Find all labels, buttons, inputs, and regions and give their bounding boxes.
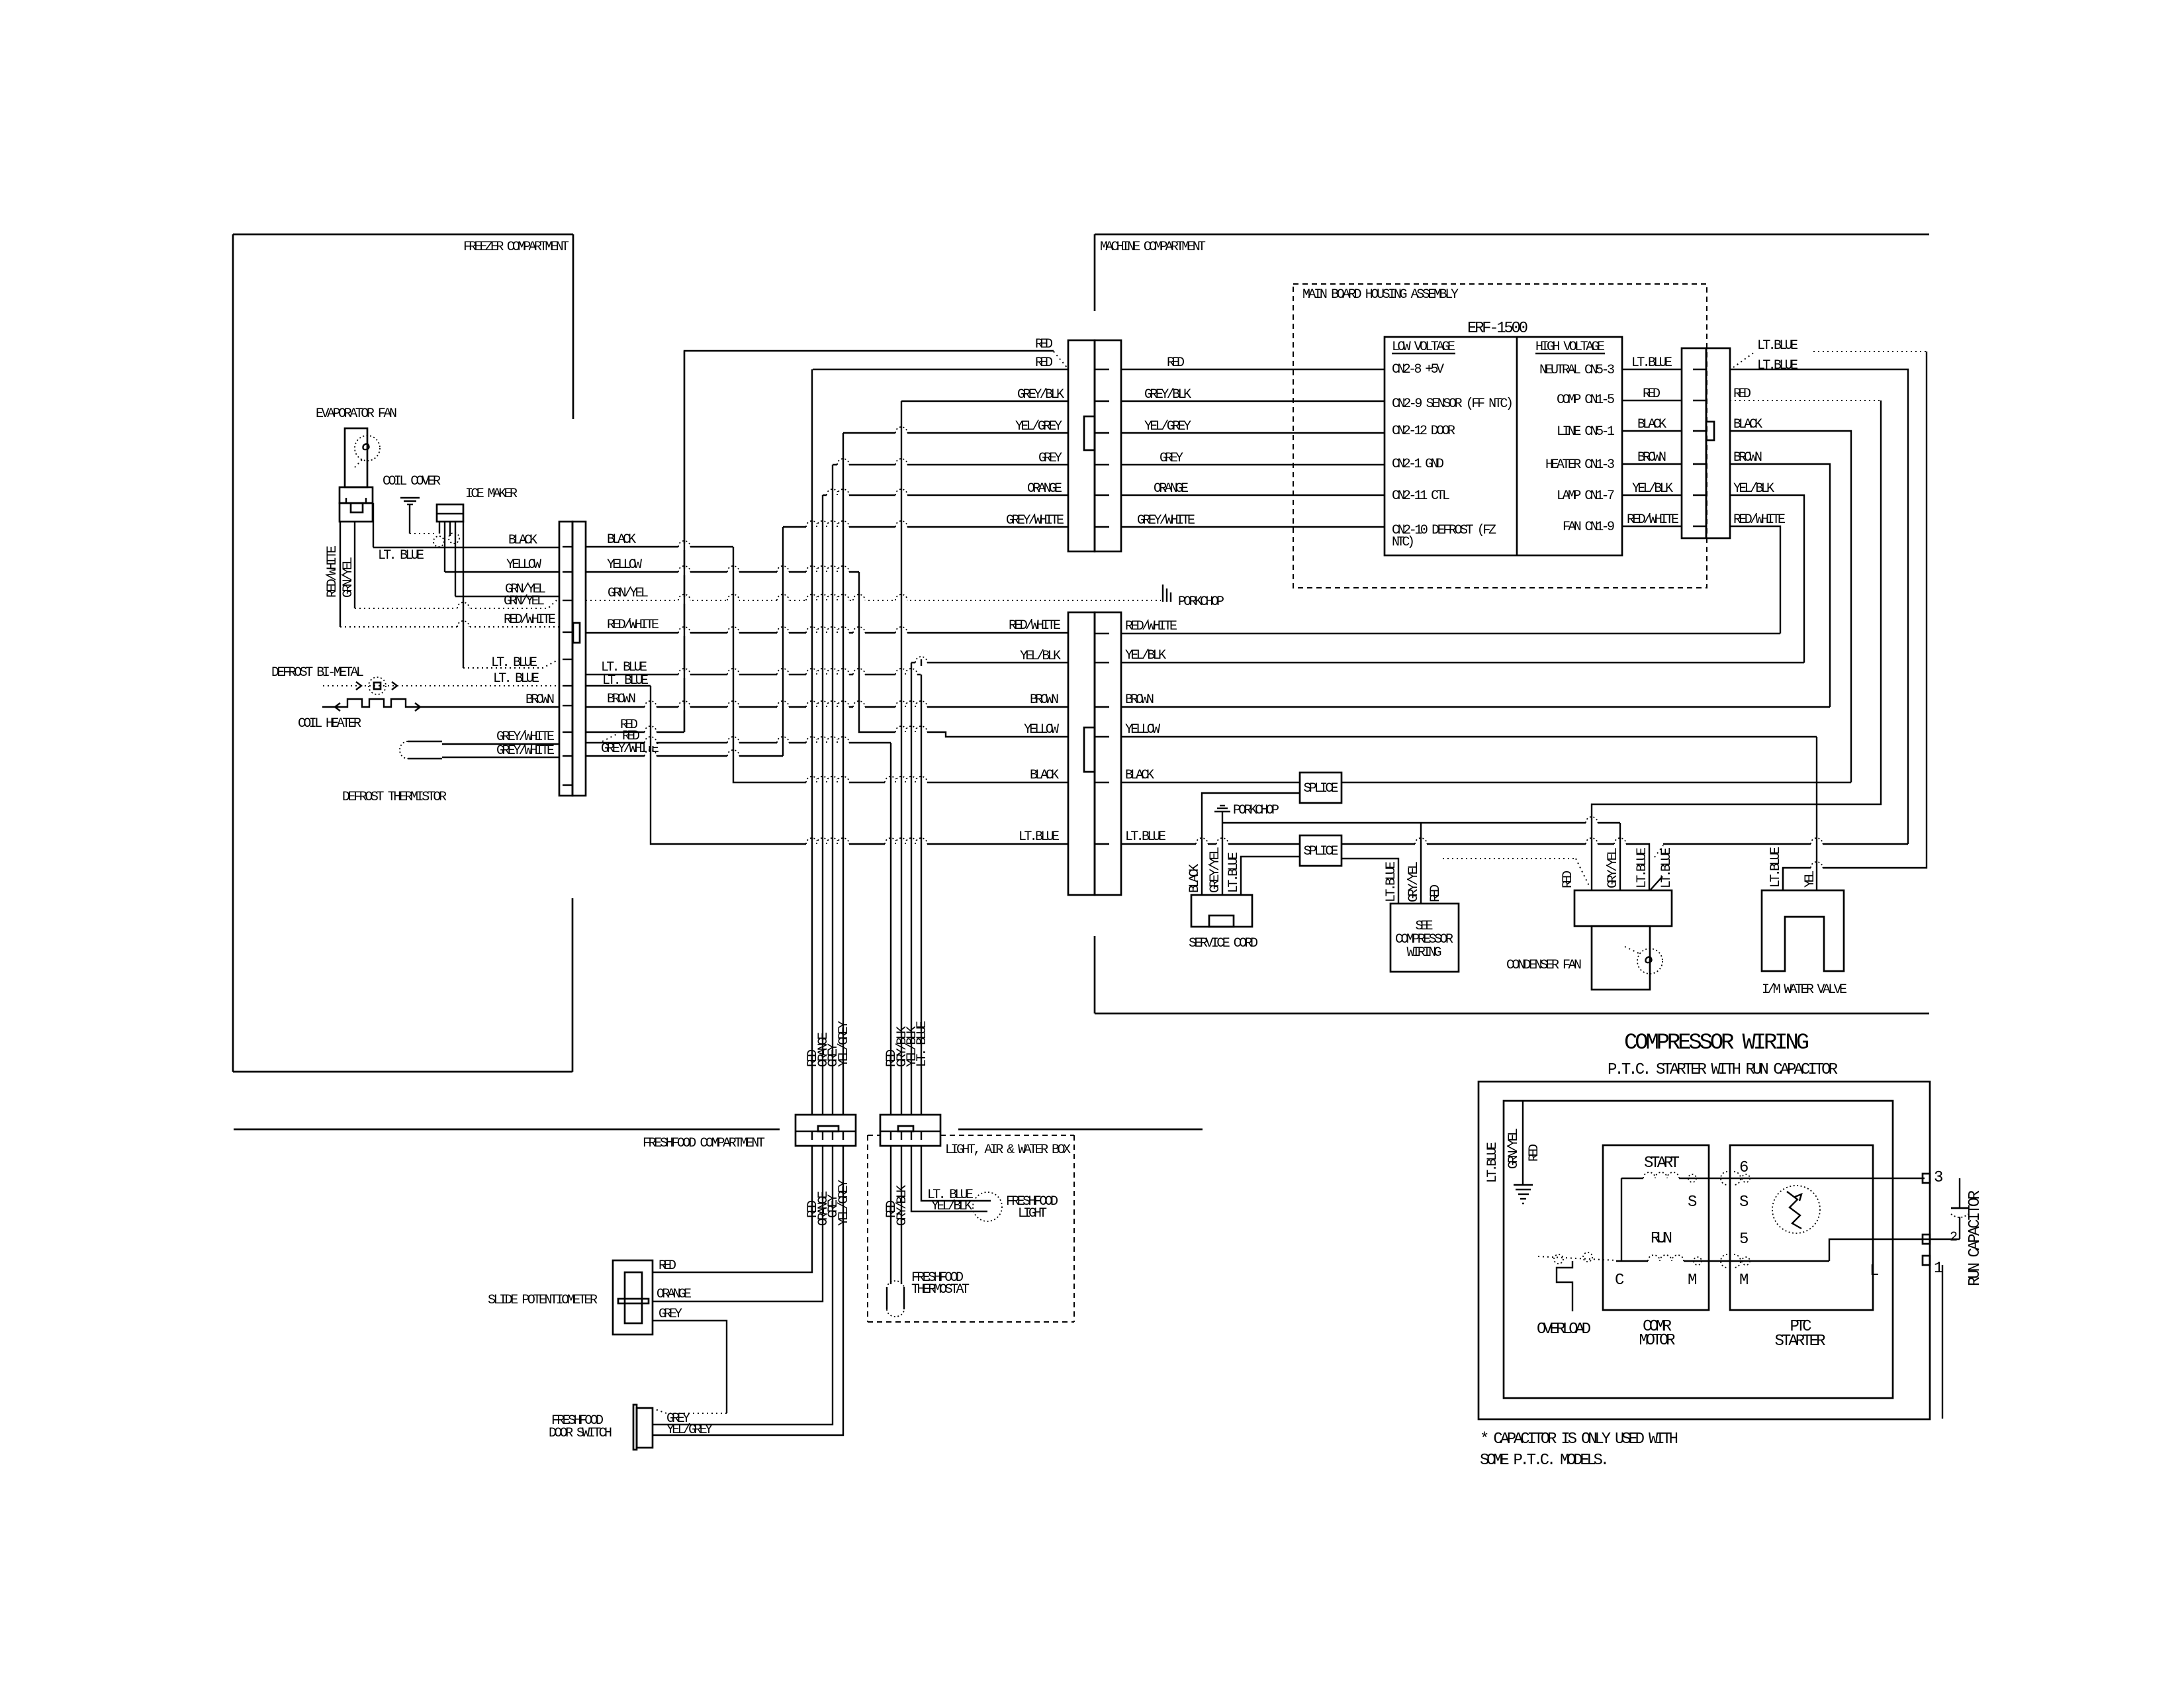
wire hop at 983,1106 — [645, 729, 657, 735]
svg-text:COMP CN1-5: COMP CN1-5 — [1557, 393, 1615, 408]
wire hop at 1816,1275 — [1196, 841, 1208, 847]
svg-text:FREEZER COMPARTMENT: FREEZER COMPARTMENT — [463, 240, 569, 255]
svg-text:CN2-12 DOOR: CN2-12 DOOR — [1392, 424, 1455, 439]
evaporator fan motor lower — [340, 503, 373, 522]
connector J2 pin stubs — [1095, 369, 1109, 370]
wire coil cover dotted — [410, 533, 435, 534]
svg-text:GREY: GREY — [1160, 451, 1183, 466]
svg-text:LOW VOLTAGE: LOW VOLTAGE — [1392, 340, 1455, 355]
wire BROWN — [1622, 463, 1682, 465]
wire hop at 2405,1275 — [1586, 841, 1598, 847]
wire ORANGE group1 vertical — [822, 495, 823, 1115]
splice SP2 box — [1300, 835, 1342, 866]
leader dotted LT.BLUE 2 — [1655, 845, 1663, 857]
wire LT.BLUE second segment — [1663, 843, 1908, 845]
ice maker pin curls — [433, 536, 444, 547]
potentiometer body — [613, 1260, 653, 1335]
svg-text:THERMOSTAT: THERMOSTAT — [911, 1282, 970, 1297]
svg-text:GREY: GREY — [1038, 451, 1062, 466]
svg-text:WIRING: WIRING — [1407, 945, 1442, 961]
wire hop at 1108,907 — [727, 597, 739, 604]
wire hop at 2745,1275 — [1811, 841, 1823, 847]
svg-text:* CAPACITOR IS ONLY USED WITH: * CAPACITOR IS ONLY USED WITH — [1480, 1430, 1678, 1448]
svg-text:LT. BLUE: LT. BLUE — [378, 548, 424, 563]
wire GRN/YEL dotted row — [355, 598, 559, 608]
wire hop at 1377,1019 — [905, 671, 917, 678]
wire YELLOW jog — [859, 572, 1068, 737]
wire BLACK service — [1202, 793, 1300, 895]
wire GREY/WHITE row — [586, 755, 783, 757]
dashed box top segs — [868, 1135, 880, 1136]
svg-text:DOOR SWITCH: DOOR SWITCH — [549, 1426, 612, 1441]
svg-text:LT.BLUE: LT.BLUE — [1019, 829, 1060, 845]
wire GREY/BLK row — [901, 400, 1068, 402]
wire YEL/BLK below B2 — [911, 1146, 987, 1211]
svg-text:YEL/GREY: YEL/GREY — [1015, 419, 1062, 434]
connector J3 left bar — [1068, 612, 1095, 895]
main board divider — [1516, 337, 1518, 555]
wire hop at 1392,1106 — [915, 729, 927, 735]
evaporator fan motor ticks — [345, 498, 347, 503]
wire hop at 1227,1068 — [806, 704, 818, 710]
defrost thermistor tube top — [408, 741, 442, 742]
wire GREY group1 vertical — [832, 465, 833, 1115]
svg-text:LT.BLUE: LT.BLUE — [1125, 829, 1166, 845]
connector J3 right bar — [1095, 612, 1121, 895]
machine compartment top wall — [1095, 234, 1929, 236]
wire fan to black row — [373, 503, 374, 547]
wire GREY below B1 — [653, 1146, 833, 1425]
svg-text:CN2-9 SENSOR (FF NTC): CN2-9 SENSOR (FF NTC) — [1392, 397, 1514, 412]
ptc zigzag arrow — [1795, 1194, 1801, 1201]
svg-text:L: L — [1870, 1262, 1879, 1280]
wire hop at 1298,1019 — [853, 671, 865, 678]
svg-text:RED/WHITE: RED/WHITE — [1009, 618, 1061, 633]
wire YEL/BLK row — [911, 662, 1068, 663]
wire hop at 1258,907 — [827, 597, 839, 604]
splice SP1 box — [1300, 773, 1342, 803]
wire M row — [1616, 1260, 1648, 1262]
svg-text:NTC): NTC) — [1392, 535, 1415, 550]
svg-text:SPLICE: SPLICE — [1304, 781, 1339, 796]
wire S-M link vertical — [1621, 1178, 1622, 1261]
svg-text:LT.BLUE: LT.BLUE — [1757, 358, 1798, 373]
wire LT.BLUE dotted upper — [1733, 352, 1754, 367]
svg-text:RED/WHITE: RED/WHITE — [607, 618, 659, 633]
main board U1 box — [1385, 337, 1622, 555]
thermostat bottom arc dotted — [887, 1309, 904, 1317]
svg-text:LT.BLUE: LT.BLUE — [1635, 847, 1650, 888]
svg-text:STARTER: STARTER — [1775, 1333, 1826, 1350]
wire RED/WHITE fan vertical — [340, 522, 341, 627]
svg-text:LT. BLUE: LT. BLUE — [493, 671, 539, 686]
wire RED group1 vertical — [811, 369, 813, 1115]
wire YEL/BLK right row — [1121, 662, 1804, 663]
wire hop at 1227,1275 — [806, 841, 818, 847]
connector J3 pin stubs — [1095, 633, 1109, 634]
ice maker pins — [439, 522, 440, 534]
leader LT.BLUE 2 — [1651, 876, 1662, 890]
svg-text:LINE CN5-1: LINE CN5-1 — [1557, 424, 1615, 440]
ice maker body — [437, 504, 463, 522]
feedthrough block B1 — [796, 1115, 856, 1146]
svg-text:FAN CN1-9: FAN CN1-9 — [1563, 520, 1615, 535]
wire BLACK — [1622, 430, 1682, 432]
wire ORANGE — [1121, 494, 1385, 496]
wire hop at 2448,1275 — [1614, 841, 1626, 847]
svg-text:NEUTRAL CN5-3: NEUTRAL CN5-3 — [1539, 363, 1615, 378]
wire hop at 1034,907 — [678, 597, 690, 604]
wire GRY/BLK below B2 — [901, 1146, 902, 1284]
wire GREY/WHITE row — [783, 526, 1068, 528]
svg-text:GRN/YEL: GRN/YEL — [1506, 1128, 1522, 1169]
freezer compartment top wall — [233, 234, 573, 236]
wire hop at 1847,1275 — [1216, 841, 1228, 847]
condenser fan motor — [1592, 926, 1650, 990]
terminal 5 ptc — [1742, 1257, 1750, 1265]
wire RED/WHITE right row — [1121, 633, 1780, 634]
wire hop at 1274,796 — [837, 524, 849, 530]
wire BLACK right row — [1121, 782, 1300, 783]
svg-text:GREY: GREY — [659, 1307, 682, 1322]
wire RED below B1 — [653, 1146, 812, 1272]
svg-text:YELLOW: YELLOW — [1024, 722, 1059, 737]
condenser fan connector box — [1574, 890, 1672, 926]
wire S row — [1621, 1178, 1643, 1179]
svg-text:CN2-1 GND: CN2-1 GND — [1392, 457, 1444, 472]
run capacitor plate — [1951, 1207, 1968, 1209]
wire BLACK / LT. BLUE row — [373, 547, 559, 548]
wire hop at 1362,654 — [895, 430, 907, 436]
wire RED A row — [586, 731, 684, 733]
svg-text:GRN/YEL: GRN/YEL — [341, 557, 356, 598]
wire hop at 1258,1275 — [827, 841, 839, 847]
wire cap top — [1959, 1178, 1960, 1208]
leader dotted RED B — [602, 733, 618, 741]
wire hop at 1183,864 — [777, 569, 789, 575]
connector J1 key rect — [573, 623, 580, 643]
svg-text:GRY/YEL: GRY/YEL — [1406, 861, 1422, 902]
wire hop at 1392,1182 — [915, 779, 927, 786]
svg-text:RED: RED — [1035, 355, 1053, 371]
svg-text:BROWN: BROWN — [607, 692, 636, 707]
wire YEL/GREY — [1121, 432, 1385, 434]
wire hop at 1243,1182 — [817, 779, 829, 786]
svg-text:M: M — [1688, 1272, 1697, 1289]
wire hop at 1227,796 — [806, 524, 818, 530]
svg-text:MOTOR: MOTOR — [1639, 1332, 1676, 1350]
freshfood compartment wall left segment — [234, 1129, 780, 1131]
wire hop at 1227,907 — [806, 597, 818, 604]
machine compartment left wall lower — [1094, 936, 1096, 1013]
wire GRN/YEL porkchop dotted — [586, 600, 1161, 601]
wire YEL/GREY group1 vertical — [842, 433, 844, 1115]
wire hop at 1108,956 — [727, 630, 739, 636]
see compressor wiring box — [1390, 904, 1459, 972]
condenser fan rotor mark — [1646, 957, 1652, 963]
svg-text:ORANGE: ORANGE — [657, 1287, 692, 1302]
block B2 divider — [880, 1131, 940, 1132]
svg-text:YEL/GREY: YEL/GREY — [666, 1423, 713, 1438]
svg-text:EVAPORATOR FAN: EVAPORATOR FAN — [316, 406, 397, 422]
svg-text:GREY/WHITE: GREY/WHITE — [1006, 513, 1064, 528]
wire RED row2 — [813, 369, 1068, 370]
wire RED below B2 — [890, 1146, 891, 1284]
wire hop at 1274,1182 — [837, 779, 849, 786]
svg-text:YEL/GREY: YEL/GREY — [837, 1180, 852, 1226]
svg-text:YEL/GREY: YEL/GREY — [837, 1021, 852, 1067]
door switch plate — [633, 1405, 637, 1450]
porkchop ground 1 — [1162, 585, 1163, 602]
svg-text:C: C — [1615, 1272, 1624, 1289]
svg-text:3: 3 — [1934, 1169, 1943, 1187]
feedthrough block B2 — [880, 1115, 940, 1146]
wire hop at 1377,1106 — [905, 729, 917, 735]
wire hop at 1362,796 — [895, 524, 907, 530]
door switch body — [637, 1408, 653, 1448]
wire hop at 1274,1019 — [837, 671, 849, 678]
connector J4 left bar — [1682, 348, 1706, 538]
wire hop at 1183,956 — [777, 630, 789, 636]
wire hop at 1377,1068 — [905, 704, 917, 710]
terminal M motor — [1694, 1257, 1702, 1265]
wire hop at 1258,748 — [827, 492, 839, 498]
svg-text:RED/WHITE: RED/WHITE — [1627, 512, 1679, 528]
wire LT.BLUE to water valve — [1783, 352, 1927, 890]
svg-text:HIGH VOLTAGE: HIGH VOLTAGE — [1535, 340, 1605, 355]
wire GRN/YEL row — [455, 596, 559, 597]
svg-text:LT. BLUE: LT. BLUE — [915, 1021, 930, 1067]
wire hop at 1258,1122 — [827, 739, 839, 746]
svg-text:RED/WHITE: RED/WHITE — [1733, 512, 1786, 528]
wire LT. BLUE dotted row — [463, 659, 559, 668]
coil cover ground — [400, 497, 420, 498]
svg-text:PORKCHOP: PORKCHOP — [1233, 803, 1279, 818]
dashed box left — [867, 1135, 868, 1322]
run capacitor curved plate — [1951, 1214, 1968, 1217]
wire LT.BLUE2 row — [586, 685, 651, 686]
wire YEL/BLK — [1730, 495, 1804, 663]
svg-text:YEL/BLK: YEL/BLK — [1125, 648, 1166, 663]
wire hop at 1298,907 — [853, 597, 865, 604]
wire hop at 1243,1275 — [817, 841, 829, 847]
wire GRY/BLK group2 vertical — [901, 401, 902, 1115]
wire RED/WHITE long row — [586, 632, 1068, 633]
wire YELLOW right row — [1121, 736, 1817, 737]
svg-text:COIL HEATER: COIL HEATER — [298, 716, 361, 731]
terminal S motor — [1688, 1174, 1696, 1182]
service cord box — [1191, 895, 1252, 927]
wire GREY/WHITE — [1121, 526, 1385, 528]
wire hop at 700,919 — [457, 605, 469, 612]
defrost thermistor tube bottom — [408, 758, 442, 759]
wire hop at 1243,956 — [817, 630, 829, 636]
wire RED/WHITE — [1730, 526, 1780, 633]
wire M to pin2 — [1829, 1239, 1960, 1261]
svg-text:BLACK: BLACK — [508, 533, 537, 548]
wire hop at 1108,864 — [727, 569, 739, 575]
wire hop at 1274,1122 — [837, 739, 849, 746]
svg-text:BROWN: BROWN — [1637, 450, 1666, 465]
svg-text:GREY/BLK: GREY/BLK — [1017, 387, 1064, 402]
wire YELLOW row — [445, 571, 559, 573]
wire hop at 1362,907 — [895, 597, 907, 604]
svg-text:GREY/YEL: GREY/YEL — [1208, 847, 1223, 893]
block B2 key — [898, 1126, 913, 1131]
svg-text:BLACK: BLACK — [1187, 864, 1203, 893]
wire LT.BLUE group2 vertical — [921, 675, 922, 1115]
svg-text:START: START — [1644, 1154, 1680, 1172]
evaporator fan motor notch — [351, 503, 363, 512]
wire hop at 1227,1019 — [806, 671, 818, 678]
compressor outer box — [1479, 1082, 1930, 1419]
wire GREY/WHITE vertical — [782, 527, 784, 756]
svg-text:RED: RED — [1561, 870, 1576, 888]
svg-text:GRN/YEL: GRN/YEL — [504, 594, 545, 609]
terminal dotted left — [1554, 1254, 1563, 1264]
block B1 pin ticks — [811, 1131, 813, 1140]
svg-text:RED: RED — [1733, 387, 1751, 402]
svg-text:HEATER CN1-3: HEATER CN1-3 — [1545, 457, 1615, 473]
wire LT.BLUE solid — [1730, 369, 1908, 844]
wire hop at 1034,864 — [678, 569, 690, 575]
wire hop at 1346,1275 — [885, 841, 897, 847]
svg-text:I/M WATER VALVE: I/M WATER VALVE — [1762, 982, 1847, 998]
wire LT.BLUE pin down — [463, 522, 464, 668]
evaporator fan motor upper — [340, 487, 373, 503]
defrost bimetal chevron left — [356, 682, 361, 690]
water valve body — [1762, 890, 1844, 971]
service cord notch — [1209, 915, 1234, 927]
overload element — [1557, 1261, 1572, 1311]
potentiometer slider — [618, 1299, 649, 1303]
pin3 pad — [1923, 1174, 1930, 1183]
svg-text:RED/WHITE: RED/WHITE — [1125, 619, 1177, 634]
wire ORANGE below B1 — [653, 1146, 823, 1301]
wire LT.BLUE right row — [1121, 843, 1300, 845]
ptc disc circle — [1772, 1186, 1820, 1233]
svg-text:S: S — [1739, 1194, 1749, 1211]
evaporator fan rotor mark — [363, 444, 369, 450]
wire hop at 1298,956 — [853, 630, 865, 636]
main board housing assembly dashed box — [1293, 284, 1707, 588]
wire hop at 1183,907 — [777, 597, 789, 604]
wire hop at 1243,796 — [817, 524, 829, 530]
wire hop at 1227,956 — [806, 630, 818, 636]
connector J3 key rect — [1084, 727, 1095, 772]
connector J4 key rect — [1706, 422, 1714, 440]
wire GREY dotted to switch — [655, 1409, 727, 1413]
wire LT.BLUE below B2 — [921, 1146, 991, 1201]
svg-text:RED: RED — [659, 1258, 676, 1274]
svg-text:LT.BLUE: LT.BLUE — [1757, 338, 1798, 353]
svg-text:MACHINE COMPARTMENT: MACHINE COMPARTMENT — [1100, 240, 1206, 255]
freezer compartment right wall lower — [572, 898, 574, 1072]
wire pin1 return — [1942, 1265, 1943, 1419]
wire hop at 1362,1068 — [895, 704, 907, 710]
wire GRY/YEL fan vertical — [1619, 823, 1621, 890]
wire hop at 1034,1068 — [678, 704, 690, 710]
wire RED/WHITE dotted row — [340, 626, 559, 628]
wire GRY/YEL to box — [1420, 823, 1422, 904]
wire hop at 1362,956 — [895, 630, 907, 636]
wire hop at 1258,1182 — [827, 779, 839, 786]
wire YEL/GREY below B1 — [653, 1146, 843, 1435]
svg-text:M: M — [1739, 1272, 1749, 1289]
svg-text:LT. BLUE: LT. BLUE — [491, 655, 537, 671]
wire LT.BLUE row to group2 — [586, 674, 921, 675]
ice maker divider — [437, 513, 463, 514]
wire hop at 1392,1068 — [915, 704, 927, 710]
evaporator fan circle — [355, 436, 380, 461]
svg-text:BROWN: BROWN — [1733, 450, 1762, 465]
svg-text:6: 6 — [1739, 1159, 1749, 1177]
freshfood light bulb — [973, 1192, 1002, 1221]
svg-text:ORANGE: ORANGE — [1154, 481, 1189, 496]
wire GREY/YEL service — [1222, 812, 1223, 895]
wire GREY pot — [653, 1321, 727, 1413]
wire hop at 2405,1243 — [1586, 820, 1598, 826]
svg-text:GRY/BLK: GRY/BLK — [895, 1185, 910, 1226]
wire defrost bimetal dotted — [323, 685, 559, 686]
svg-text:LT.BLUE: LT.BLUE — [1631, 355, 1672, 371]
svg-text:YELLOW: YELLOW — [506, 557, 541, 573]
wire hop at 2745,1311 — [1811, 865, 1823, 871]
wire BLACK — [586, 546, 733, 547]
connector J1 right bar — [572, 522, 586, 796]
wire GREY/WHITE row2 — [442, 757, 559, 758]
coil heater chevron left — [335, 703, 340, 711]
wire hop at 1108,1019 — [727, 671, 739, 678]
wire GREY/WHITE row1 — [442, 743, 559, 745]
wire GREY/BLK — [1121, 400, 1385, 402]
defrost bimetal chevron right — [392, 682, 397, 690]
wire hop at 983,1068 — [645, 704, 657, 710]
svg-text:SPLICE: SPLICE — [1304, 844, 1339, 859]
wire LT.BLUE — [1622, 369, 1682, 370]
wire LT.BLUE to box — [1342, 859, 1398, 904]
svg-text:RED/WHITE: RED/WHITE — [504, 612, 556, 628]
svg-text:COIL COVER: COIL COVER — [383, 474, 441, 489]
wire LT.BLUE after splice — [1342, 844, 1649, 890]
wire BROWN long row — [586, 706, 1068, 708]
svg-text:SLIDE POTENTIOMETER: SLIDE POTENTIOMETER — [488, 1293, 598, 1308]
wire ORANGE row — [823, 494, 1068, 496]
wire RED dotted link — [1443, 858, 1576, 859]
svg-text:CN2-8 +5V: CN2-8 +5V — [1392, 362, 1444, 377]
svg-text:RUN CAPACITOR: RUN CAPACITOR — [1966, 1190, 1984, 1286]
wire YEL/BLK — [1622, 494, 1682, 496]
connector J4 right bar — [1706, 348, 1730, 538]
wire RED A vertical — [684, 351, 685, 732]
svg-text:BROWN: BROWN — [1030, 692, 1059, 708]
evaporator fan leader dotted — [355, 457, 364, 467]
connector J2 right bar — [1095, 340, 1121, 551]
wire BROWN right row — [1121, 706, 1830, 708]
wire break arc M row ptc edge — [1721, 1254, 1727, 1268]
svg-text:LT.BLUE: LT.BLUE — [1768, 847, 1784, 888]
svg-text:RED: RED — [1527, 1144, 1542, 1162]
dashed box bottom — [868, 1321, 1074, 1323]
terminal 6 ptc — [1742, 1174, 1750, 1182]
wire hop at 1183,1122 — [777, 739, 789, 746]
defrost bimetal contact square — [374, 682, 381, 689]
svg-text:GRN/YEL: GRN/YEL — [608, 586, 649, 601]
block B2 pin ticks — [890, 1131, 891, 1140]
wire hop at 1362,748 — [895, 492, 907, 498]
wire hop at 1392,1275 — [915, 841, 927, 847]
svg-text:YEL/BLK: YEL/BLK — [1632, 481, 1673, 496]
